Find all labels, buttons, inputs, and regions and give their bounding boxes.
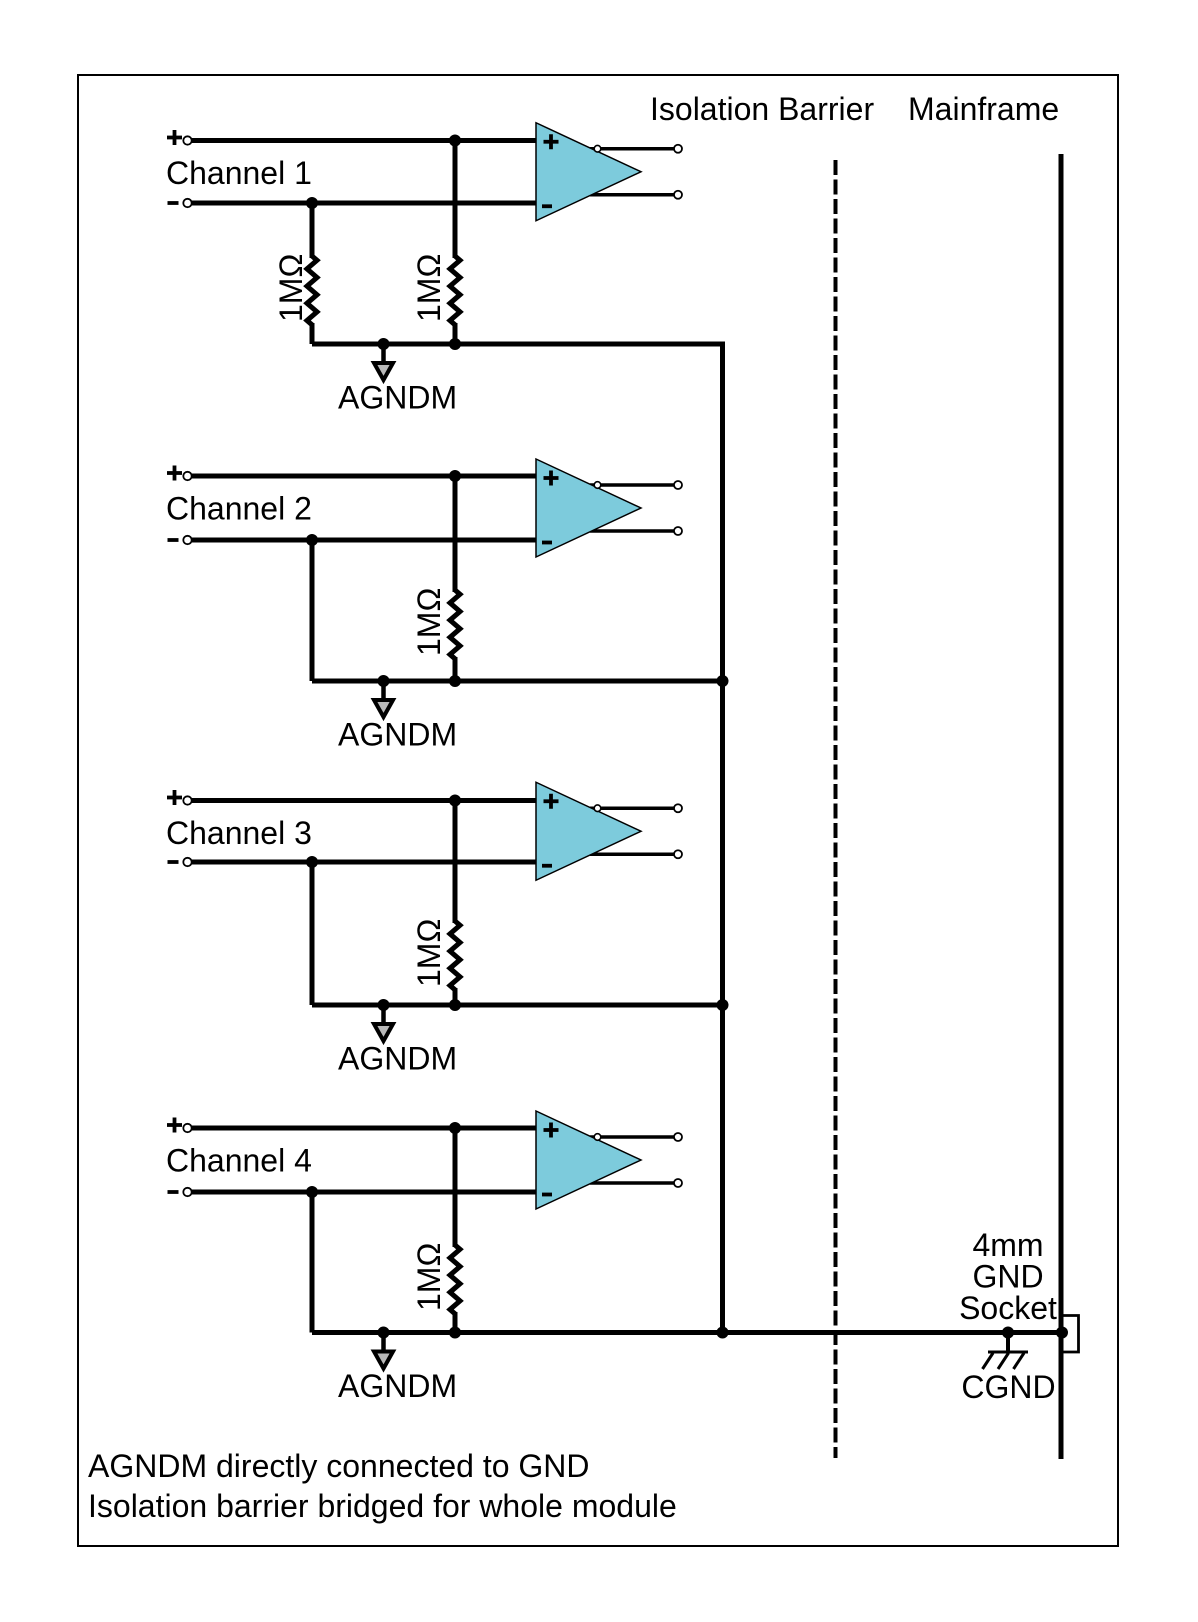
- svg-text:AGNDM directly connected to GN: AGNDM directly connected to GND: [88, 1448, 590, 1484]
- svg-text:AGNDM: AGNDM: [338, 717, 457, 753]
- svg-text:Channel 3: Channel 3: [166, 815, 312, 851]
- svg-text:AGNDM: AGNDM: [338, 1368, 457, 1404]
- svg-text:AGNDM: AGNDM: [338, 380, 457, 416]
- svg-text:Channel 4: Channel 4: [166, 1143, 312, 1179]
- svg-text:1MΩ: 1MΩ: [411, 588, 447, 656]
- svg-text:AGNDM: AGNDM: [338, 1041, 457, 1077]
- svg-text:1MΩ: 1MΩ: [411, 919, 447, 987]
- svg-text:Channel 1: Channel 1: [166, 155, 312, 191]
- svg-text:Isolation barrier bridged for: Isolation barrier bridged for whole modu…: [88, 1488, 677, 1524]
- svg-text:Channel 2: Channel 2: [166, 491, 312, 527]
- svg-text:1MΩ: 1MΩ: [411, 1243, 447, 1311]
- svg-text:CGND: CGND: [961, 1369, 1055, 1405]
- svg-text:Isolation Barrier: Isolation Barrier: [650, 91, 874, 127]
- svg-text:Socket: Socket: [959, 1290, 1057, 1326]
- svg-text:1MΩ: 1MΩ: [273, 254, 309, 322]
- svg-text:Mainframe: Mainframe: [908, 91, 1059, 127]
- svg-text:1MΩ: 1MΩ: [411, 254, 447, 322]
